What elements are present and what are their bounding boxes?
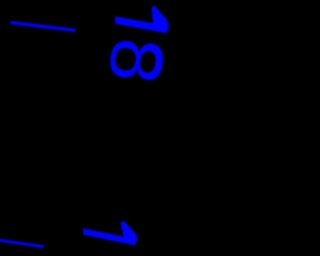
digit 1 top (115, 5, 169, 33)
digit 1 bottom (83, 221, 137, 246)
digit 8 (108, 39, 165, 82)
tick line C bottom-left (0, 240, 44, 246)
tick line A top-left (10, 23, 75, 31)
